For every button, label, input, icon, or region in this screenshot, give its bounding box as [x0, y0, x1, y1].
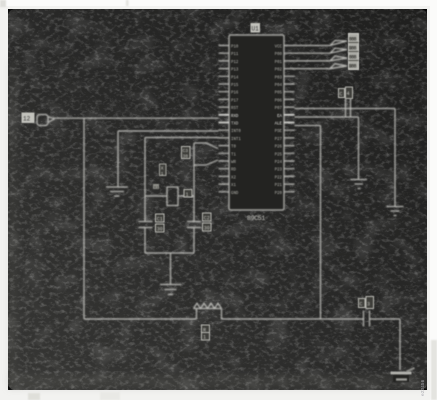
IC U1 body: [229, 35, 284, 210]
wire xtal right vertical: [193, 143, 195, 222]
svg-text:P12: P12: [231, 61, 239, 65]
wire connector to RST pin: [54, 117, 219, 119]
highlighted pin stubs: [219, 115, 295, 123]
capacitor C4 label: [339, 89, 345, 98]
crystal X1: [145, 195, 167, 197]
label box near crystal col: [182, 147, 191, 159]
crystal top label: [160, 164, 167, 176]
wire P07 net to ground: [295, 109, 396, 207]
svg-text:P20: P20: [275, 192, 283, 196]
svg-text:888: 888: [349, 37, 357, 43]
svg-text:TXD: TXD: [231, 123, 239, 127]
svg-text:30: 30: [183, 154, 189, 160]
svg-text:X: X: [161, 166, 164, 172]
net flag upper: [194, 143, 218, 149]
svg-text:3: 3: [367, 302, 370, 308]
capacitor C4 legs: [346, 99, 351, 118]
net flag lower: [194, 160, 218, 165]
bottom wire with resistor R1: [84, 309, 364, 320]
X1 small label: [153, 184, 159, 189]
svg-text:P11: P11: [231, 53, 239, 57]
svg-text:INT0: INT0: [231, 130, 241, 134]
svg-text:4: 4: [347, 91, 350, 97]
svg-text:PSE: PSE: [275, 130, 283, 134]
wire vertical left loop: [83, 118, 85, 319]
svg-text:P04: P04: [275, 84, 283, 88]
svg-text:B88: B88: [349, 64, 357, 70]
svg-text:e23456: e23456: [420, 379, 426, 396]
IC internal pin labels: [231, 46, 283, 196]
wire gnd branch: [118, 131, 219, 187]
LED wire 2: [295, 48, 348, 53]
svg-text:P13: P13: [231, 69, 239, 73]
svg-text:EA: EA: [277, 115, 282, 119]
connector J1 plug: [37, 115, 48, 126]
svg-text:RXD: RXD: [231, 115, 239, 119]
svg-text:P00: P00: [275, 53, 283, 57]
LED wire 4: [295, 64, 348, 69]
svg-text:X1: X1: [231, 184, 236, 188]
soft lightening along bottom and left edges: [9, 60, 425, 388]
svg-text:P07: P07: [275, 107, 283, 111]
svg-text:1: 1: [203, 335, 206, 341]
svg-text:12: 12: [23, 116, 31, 123]
svg-text:RD: RD: [231, 169, 236, 173]
svg-text:89C51: 89C51: [247, 215, 265, 222]
svg-text:P23: P23: [275, 169, 283, 173]
svg-text:ALE: ALE: [275, 123, 283, 127]
svg-text:T1: T1: [231, 153, 236, 157]
ground (crystal circuit): [160, 285, 181, 295]
wire EA net to ground: [295, 117, 359, 179]
svg-text:P03: P03: [275, 76, 283, 80]
svg-text:30: 30: [204, 226, 210, 232]
capacitor C3 value label: [359, 299, 366, 308]
svg-text:C1: C1: [157, 217, 163, 223]
svg-text:P01: P01: [275, 61, 283, 65]
C2 label: [203, 213, 212, 221]
svg-text:VCC: VCC: [275, 46, 283, 50]
svg-text:P27: P27: [275, 138, 283, 142]
svg-text:P06: P06: [275, 99, 283, 103]
LED wire 1: [295, 41, 348, 46]
svg-text:888: 888: [349, 55, 357, 61]
svg-text:C: C: [360, 302, 363, 308]
svg-text:B88: B88: [349, 46, 357, 52]
svg-text:P05: P05: [275, 92, 283, 96]
svg-text:P17: P17: [231, 99, 239, 103]
capacitor C3: [364, 311, 401, 327]
wire xtal left branch: [145, 138, 219, 222]
svg-text:RST: RST: [231, 107, 239, 111]
svg-text:T0: T0: [231, 146, 236, 150]
svg-text:P10: P10: [231, 46, 239, 50]
wire caps bottom: [145, 253, 194, 284]
svg-text:P26: P26: [275, 146, 283, 150]
svg-text:C: C: [340, 92, 343, 98]
svg-text:C2: C2: [204, 216, 210, 222]
connector J1 label: [22, 113, 35, 124]
capacitor C1: [139, 222, 153, 254]
ground (left branch): [106, 187, 128, 196]
R1 label: [202, 325, 210, 340]
svg-text:P15: P15: [231, 84, 239, 88]
svg-text:P24: P24: [275, 161, 283, 165]
crystal right tiny box: [184, 190, 192, 198]
wire ALE net down loop: [295, 126, 321, 320]
svg-text:P02: P02: [275, 69, 283, 73]
svg-text:P22: P22: [275, 176, 283, 180]
svg-text:R: R: [203, 328, 206, 334]
svg-text:U1: U1: [252, 26, 260, 33]
svg-text:P25: P25: [275, 153, 283, 157]
capacitor C2: [187, 222, 201, 254]
ground (right inner): [351, 180, 368, 189]
U1 top label: [251, 23, 261, 33]
svg-text:30: 30: [157, 227, 163, 233]
C1 label: [156, 214, 165, 222]
svg-text:WR: WR: [231, 161, 236, 165]
svg-text:1: 1: [161, 171, 164, 177]
svg-text:P14: P14: [231, 76, 239, 80]
wire to chassis earth: [399, 319, 401, 370]
IC right pins: [284, 46, 295, 192]
LED wire 3: [295, 56, 348, 61]
svg-text:P21: P21: [275, 184, 283, 188]
svg-text:1: 1: [186, 192, 189, 198]
svg-text:X1: X1: [154, 186, 159, 190]
resistor zigzag: [194, 303, 222, 308]
LED indicator block D1-D4: [349, 34, 359, 70]
earth symbol bottom right: [391, 368, 415, 382]
svg-text:P16: P16: [231, 92, 239, 96]
svg-text:C3: C3: [183, 148, 189, 154]
IC left pins: [219, 46, 230, 192]
ground (right outer): [387, 207, 404, 216]
svg-text:INT1: INT1: [231, 138, 241, 142]
svg-text:X2: X2: [231, 176, 236, 180]
svg-text:GND: GND: [231, 192, 239, 196]
